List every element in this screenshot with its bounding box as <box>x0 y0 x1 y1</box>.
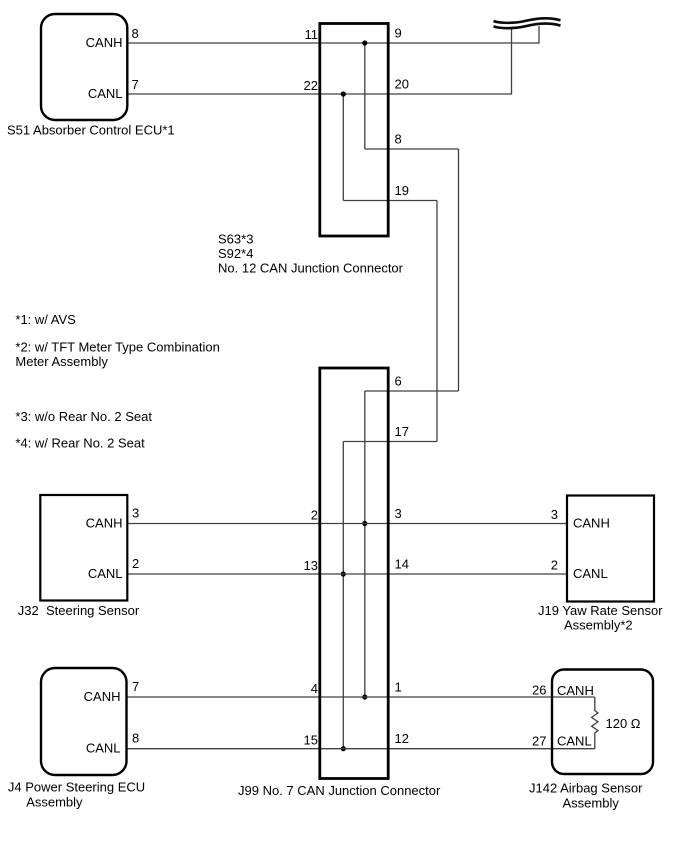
wire CANH: J32 pin 3 to J19 pin 3 <box>128 523 568 525</box>
svg-text:CANL: CANL <box>88 566 123 581</box>
ECU box S51 <box>41 14 127 120</box>
svg-text:8: 8 <box>132 26 139 41</box>
svg-text:S51 Absorber Control ECU*1: S51 Absorber Control ECU*1 <box>7 123 175 138</box>
sensor box J19 <box>567 496 654 602</box>
svg-text:No. 12 CAN Junction Connector: No. 12 CAN Junction Connector <box>218 261 404 276</box>
bus wire CANL inside No.12 junction <box>342 94 344 201</box>
svg-text:CANL: CANL <box>88 86 123 101</box>
svg-text:19: 19 <box>395 183 409 198</box>
svg-text:13: 13 <box>304 558 318 573</box>
svg-text:*3: w/o Rear No. 2 Seat: *3: w/o Rear No. 2 Seat <box>15 409 152 424</box>
svg-text:CANL: CANL <box>573 566 608 581</box>
J142 caption <box>529 781 643 811</box>
svg-text:11: 11 <box>305 27 319 42</box>
svg-text:6: 6 <box>395 374 402 389</box>
svg-text:J99 No. 7 CAN Junction Connect: J99 No. 7 CAN Junction Connector <box>238 783 441 798</box>
svg-text:CANH: CANH <box>84 689 121 704</box>
svg-text:*4: w/ Rear No. 2 Seat: *4: w/ Rear No. 2 Seat <box>15 436 145 451</box>
bus wire CANL inside J99 <box>342 442 344 749</box>
svg-text:2: 2 <box>132 556 139 571</box>
svg-text:15: 15 <box>304 733 318 748</box>
bus wire CANH inside No.12 junction <box>364 43 366 149</box>
J4 caption <box>8 780 145 810</box>
wire pin 19 of No.12 junction down to J99 pin 17 <box>343 201 437 442</box>
svg-text:4: 4 <box>311 681 318 696</box>
wire CANH: S51 pin 8 to junction pin 11/9 and onward <box>127 26 540 44</box>
svg-text:Meter Assembly: Meter Assembly <box>15 354 108 369</box>
junction dot J99 CANH row 1 <box>362 694 367 699</box>
svg-text:J32 Steering Sensor: J32 Steering Sensor <box>18 603 140 618</box>
svg-text:26: 26 <box>532 683 546 698</box>
svg-text:3: 3 <box>551 507 558 522</box>
bus wire CANH inside J99 <box>364 391 366 697</box>
svg-text:9: 9 <box>395 26 402 41</box>
wire CANL: S51 pin 7 to junction pin 22/20 and onward <box>127 28 512 95</box>
svg-text:1: 1 <box>395 680 402 695</box>
svg-text:*1: w/ AVS: *1: w/ AVS <box>15 312 76 327</box>
svg-text:J19 Yaw Rate Sensor: J19 Yaw Rate Sensor <box>538 603 663 618</box>
junction dot J99 CANL row 12 <box>341 746 346 751</box>
svg-text:Assembly: Assembly <box>563 796 620 811</box>
twisted pair symbol <box>494 18 561 28</box>
svg-text:7: 7 <box>132 77 139 92</box>
svg-text:8: 8 <box>132 731 139 746</box>
wire pin 8 of No.12 junction down to J99 pin 6 <box>365 149 459 391</box>
No.12 CAN junction connector box <box>320 24 388 237</box>
J19 caption <box>538 603 663 633</box>
svg-text:CANH: CANH <box>557 683 594 698</box>
svg-text:J142 Airbag Sensor: J142 Airbag Sensor <box>529 781 643 796</box>
svg-text:CANH: CANH <box>573 516 610 531</box>
svg-text:17: 17 <box>395 424 409 439</box>
wire CANH: J4 pin 7 to J142 pin 26 <box>127 696 595 698</box>
junction dot CANH bus top <box>362 40 367 45</box>
svg-text:Assembly*2: Assembly*2 <box>564 618 633 633</box>
svg-text:20: 20 <box>395 77 409 92</box>
svg-text:S92*4: S92*4 <box>218 246 253 261</box>
wire CANL: J32 pin 2 to J19 pin 2 <box>128 573 568 575</box>
svg-text:3: 3 <box>132 506 139 521</box>
svg-text:J4 Power Steering ECU: J4 Power Steering ECU <box>8 780 145 795</box>
sensor box J142 (border drawn over internal wires) <box>552 670 653 775</box>
svg-text:CANH: CANH <box>86 516 123 531</box>
svg-text:22: 22 <box>304 78 318 93</box>
svg-text:CANH: CANH <box>86 35 123 50</box>
No.12 junction caption <box>218 232 404 276</box>
svg-text:27: 27 <box>532 734 546 749</box>
svg-text:120 Ω: 120 Ω <box>606 716 641 731</box>
resistor 120 ohm inside J142 <box>592 697 598 749</box>
wire CANL: J4 pin 8 to J142 pin 27 <box>127 748 595 750</box>
svg-text:3: 3 <box>395 506 402 521</box>
svg-text:CANL: CANL <box>557 734 592 749</box>
svg-text:8: 8 <box>395 132 402 147</box>
J99 No.7 CAN junction connector box <box>320 368 388 779</box>
svg-text:2: 2 <box>311 508 318 523</box>
sensor box J32 <box>40 495 127 601</box>
svg-text:14: 14 <box>395 557 409 572</box>
svg-text:12: 12 <box>395 731 409 746</box>
ECU box J4 <box>41 668 127 775</box>
svg-text:2: 2 <box>551 558 558 573</box>
note *2 <box>15 340 219 370</box>
svg-text:CANL: CANL <box>86 741 121 756</box>
junction dot CANL bus top <box>341 91 346 96</box>
svg-text:S63*3: S63*3 <box>218 232 253 247</box>
svg-text:7: 7 <box>132 679 139 694</box>
svg-text:*2: w/ TFT Meter Type Combinat: *2: w/ TFT Meter Type Combination <box>15 340 219 355</box>
junction dot J99 CANH row 3 <box>362 521 367 526</box>
junction dot J99 CANL row 14 <box>341 571 346 576</box>
svg-text:Assembly: Assembly <box>26 794 83 809</box>
